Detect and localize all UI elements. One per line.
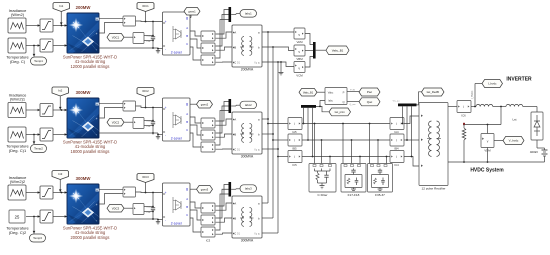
- svg-text:Vabc_B1: Vabc_B1: [332, 48, 344, 52]
- svg-text:Iac_RedB: Iac_RedB: [427, 90, 439, 94]
- svg-text:VDC3: VDC3: [112, 206, 120, 210]
- saturation block irradiance row3: [40, 186, 53, 199]
- current measurement IA4: [390, 118, 404, 135]
- signal source Temperature row2: [8, 127, 26, 142]
- filter block C Filter: [309, 164, 336, 198]
- annotation title 300MW row3: [76, 176, 92, 181]
- ground bus phase C: [279, 62, 284, 75]
- svg-text:VC_au: VC_au: [393, 101, 400, 103]
- DC source 400kV battery: [530, 148, 548, 162]
- annotation HVDC System: [470, 168, 504, 174]
- svg-text:gwm1: gwm1: [188, 9, 196, 13]
- goto tag In1: [53, 3, 70, 26]
- saturation block temperature row1: [40, 39, 53, 52]
- goto tag In2: [52, 87, 69, 110]
- outport tag Temp2: [31, 135, 47, 153]
- from tag Vabc_B1 input: [299, 89, 325, 97]
- current measurement block phase B row2: [201, 130, 215, 140]
- wire measurement outputs to mux and transformer row1: [216, 10, 232, 63]
- from tag VDC1: [107, 34, 133, 42]
- annotation SunPower caption row3: [63, 226, 117, 240]
- wire taps to C Filter: [315, 124, 331, 164]
- from tag gwm1: [184, 8, 200, 18]
- svg-text:(Deg. C): (Deg. C): [10, 59, 26, 64]
- wire irradiance to saturation row2: [26, 109, 40, 111]
- svg-text:Q_var: Q_var: [350, 103, 356, 106]
- current measurement IB4: [390, 134, 404, 151]
- wire irradiance to saturation row3: [26, 191, 40, 193]
- svg-text:In2: In2: [58, 89, 63, 93]
- two-level converter IGBT bridge row2: [163, 98, 191, 141]
- svg-text:IB5: IB5: [292, 147, 297, 151]
- wire mux stubs to phase wires: [303, 108, 314, 158]
- wire PV m output row1: [99, 17, 123, 19]
- signal source Irradiance row1: [8, 18, 26, 33]
- wire DC positive rail tap: [463, 107, 501, 126]
- svg-text:VCM: VCM: [296, 74, 303, 78]
- ground DC link row1: [156, 48, 160, 53]
- ground DC link row3: [156, 219, 160, 224]
- svg-text:Iabc1: Iabc1: [245, 11, 252, 15]
- svg-text:VBM: VBM: [296, 57, 303, 61]
- svg-text:VAM: VAM: [296, 40, 303, 44]
- current measurement block phase C row1: [201, 55, 215, 65]
- mux bus bar row2: [229, 99, 232, 113]
- mux bus bar row1: [229, 7, 232, 22]
- voltage measurement VCM: [294, 62, 305, 78]
- wire PV m output row3: [99, 188, 123, 190]
- current measurement IC5: [288, 151, 302, 168]
- svg-text:P: P: [343, 90, 345, 94]
- two-level converter IGBT bridge row1: [163, 12, 191, 55]
- two-level converter IGBT bridge row3: [163, 183, 191, 226]
- from tag VDC3: [107, 205, 133, 213]
- mux bus bar rectifier currents: [398, 104, 417, 107]
- wire temp saturation to PV array row1: [53, 44, 67, 46]
- outport tag Temp3: [30, 217, 46, 243]
- annotation Temperature label row3: [6, 226, 29, 236]
- svg-text:Qac: Qac: [367, 100, 373, 104]
- wire IC4 to rectifier port C: [404, 157, 419, 167]
- label Lst: [512, 117, 516, 121]
- wire Q output to Qac: [347, 102, 359, 107]
- annotation title 300MW row2: [76, 90, 92, 95]
- svg-text:300MW: 300MW: [76, 90, 92, 95]
- signal source Temperature row1: [8, 38, 26, 53]
- svg-text:gwm3: gwm3: [201, 187, 209, 191]
- voltage measurement VAM: [294, 28, 305, 44]
- svg-text:Iabc: Iabc: [328, 100, 333, 103]
- goto tag Qac: [359, 98, 380, 106]
- wire PV minus to converter bottom rail row1: [99, 47, 163, 49]
- current measurement block phase A row3: [201, 203, 215, 213]
- label IC3: [206, 239, 211, 243]
- svg-text:In3: In3: [58, 172, 63, 176]
- wire bus to IB5: [273, 139, 288, 141]
- wire DC return rail: [448, 161, 545, 163]
- wire temperature to saturation row2: [26, 133, 40, 135]
- svg-text:V_hvdc: V_hvdc: [509, 139, 519, 143]
- ground DC link row2: [156, 134, 160, 139]
- wire VDC measurement taps row2: [144, 120, 154, 127]
- wire measurement outputs to mux and transformer row2: [216, 102, 232, 150]
- svg-text:400kV: 400kV: [530, 150, 538, 154]
- wire taps to filter F35-37: [370, 124, 387, 164]
- wire VDC measurement taps row3: [144, 206, 154, 213]
- svg-text:(Deg. C)2: (Deg. C)2: [9, 230, 27, 235]
- svg-text:300MW: 300MW: [76, 176, 92, 181]
- goto tag IDC1: [137, 3, 154, 22]
- annotation title 200MW row1: [76, 5, 92, 10]
- svg-text:Iac_prim: Iac_prim: [335, 110, 346, 114]
- wire mux to Iac_RedB: [417, 92, 422, 105]
- wire P output to Pac: [347, 89, 359, 91]
- goto tag Iac_RedB: [422, 88, 445, 96]
- svg-text:gwm2: gwm2: [201, 102, 209, 106]
- wire rectifier DC+ to IC6: [448, 106, 457, 108]
- mux bus bar row3: [229, 182, 232, 197]
- wire PV plus output row1: [99, 23, 123, 34]
- from tag gwm2: [190, 101, 213, 109]
- svg-text:Iabc2: Iabc2: [245, 103, 252, 107]
- svg-text:Iabc3: Iabc3: [245, 187, 252, 191]
- measurement block DC current row2: [123, 101, 136, 111]
- goto tag IDC3: [137, 174, 154, 193]
- wire irradiance to saturation row1: [26, 24, 40, 26]
- svg-text:Temp3: Temp3: [33, 236, 42, 240]
- wire temp saturation to PV array row3: [53, 215, 67, 217]
- wire temperature to saturation row3: [26, 215, 40, 217]
- goto tag Vabc_B1: [316, 46, 349, 55]
- svg-text:Lst: Lst: [512, 117, 516, 121]
- voltage measurement VBM: [294, 45, 305, 61]
- goto tag Pac: [359, 88, 380, 96]
- wire DC top rail to converter row1: [136, 21, 163, 23]
- current measurement IA5: [288, 118, 302, 135]
- wire phase B horizontal run: [302, 139, 390, 141]
- svg-text:200MW: 200MW: [76, 5, 92, 10]
- svg-text:Vabc: Vabc: [328, 92, 334, 95]
- inverter valve block: [531, 112, 543, 140]
- annotation Temperature label row2: [6, 144, 29, 154]
- svg-text:IC5: IC5: [292, 163, 297, 167]
- measurement block DC voltage row1: [133, 33, 144, 44]
- wire temp saturation to PV array row2: [53, 133, 67, 135]
- svg-text:INVERTER: INVERTER: [506, 77, 532, 83]
- goto tag IDC2: [137, 88, 154, 108]
- svg-text:IB4: IB4: [394, 147, 399, 151]
- wire saturation to PV array row2: [53, 109, 67, 111]
- svg-text:Temp2: Temp2: [34, 147, 43, 151]
- annotation Temperature label row1: [6, 55, 29, 65]
- current measurement block phase A row2: [201, 118, 215, 128]
- wire mux stubs to rectifier phase wires: [393, 101, 413, 158]
- annotation SunPower caption row2: [63, 140, 117, 154]
- wire measurement outputs to mux and transformer row3: [216, 185, 232, 235]
- goto tag Iabc3: [231, 185, 256, 193]
- wire three-phase bus phase C vertical: [277, 61, 279, 233]
- svg-text:IC6: IC6: [461, 113, 466, 117]
- wire transformer1 outputs to bus: [262, 32, 294, 67]
- current measurement IC6: [457, 101, 471, 118]
- goto tag Iac_prim: [329, 108, 351, 116]
- svg-text:VDC1: VDC1: [112, 35, 120, 39]
- svg-text:12 pulse Rectifier: 12 pulse Rectifier: [422, 186, 446, 190]
- mux bus bar voltages B1: [313, 42, 316, 59]
- wire saturation to PV array row3: [53, 191, 67, 193]
- wire PV plus output row2: [99, 108, 123, 119]
- wire phase C horizontal run: [302, 156, 390, 158]
- label 300MVA row2: [241, 155, 254, 159]
- wire transformer3 outputs to bus: [262, 203, 278, 233]
- PV array block 300MW row2: [67, 98, 99, 138]
- wire saturation to PV array row1: [53, 24, 67, 26]
- annotation SunPower caption row1: [63, 55, 117, 69]
- voltage measurement VDM: [481, 125, 494, 163]
- saturation block irradiance row2: [40, 104, 53, 117]
- signal source Irradiance row2: [8, 103, 26, 118]
- current measurement IC4: [390, 151, 404, 168]
- wire inverter to DC source: [537, 140, 545, 148]
- wire three-phase bus phase A vertical: [267, 31, 269, 203]
- goto tag Iabc1: [231, 10, 256, 18]
- current measurement block phase A row1: [201, 31, 215, 41]
- wire voltage measurements to mux: [305, 34, 313, 68]
- wire three-phase bus phase B vertical: [272, 46, 274, 218]
- annotation Irradiance label row3: [9, 175, 28, 184]
- wire PV m output row2: [99, 102, 123, 104]
- svg-text:12000 parallel strings: 12000 parallel strings: [71, 64, 110, 69]
- signal source Irradiance row3: [8, 185, 26, 200]
- wire IB4 to rectifier port B: [404, 139, 419, 141]
- svg-text:(W/m2): (W/m2): [11, 12, 25, 17]
- label 200MVA row1: [241, 68, 254, 72]
- svg-text:IC4: IC4: [394, 163, 399, 167]
- wire IA4 to rectifier port A: [404, 116, 419, 124]
- goto tag Iabc2: [231, 101, 256, 109]
- capacitor DC link row3: [147, 193, 156, 220]
- svg-text:VDC2: VDC2: [112, 120, 120, 124]
- wire taps to filter F17-F18: [343, 124, 360, 164]
- svg-text:IC3: IC3: [206, 239, 211, 243]
- current measurement block phase C row2: [201, 142, 215, 152]
- current measurement IB5: [288, 134, 302, 151]
- from tag gwm3: [190, 186, 213, 194]
- svg-text:Temp1: Temp1: [34, 59, 43, 63]
- wire mux to Iabc input and Iac_prim: [316, 101, 329, 112]
- current measurement block phase B row3: [201, 215, 215, 225]
- wire phase A horizontal run: [302, 123, 390, 125]
- svg-text:IA5: IA5: [292, 130, 297, 134]
- svg-text:IDC2: IDC2: [142, 89, 149, 93]
- PV array block 200MW row1: [67, 13, 99, 53]
- svg-text:(W/m2)1: (W/m2)1: [10, 97, 26, 102]
- wire DC top rail to converter row3: [136, 192, 163, 194]
- three-phase transformer 300MVA row3: [232, 196, 262, 238]
- saturation block irradiance row1: [40, 19, 53, 32]
- wire PV minus to converter bottom rail row3: [99, 218, 163, 220]
- measurement block DC current row1: [123, 16, 136, 26]
- svg-text:200MVA: 200MVA: [241, 68, 254, 72]
- svg-text:20000 parallel strings: 20000 parallel strings: [71, 235, 110, 240]
- goto tag In3: [52, 171, 69, 193]
- wire transformer2 outputs to bus: [262, 119, 278, 149]
- svg-text:F35-37: F35-37: [375, 193, 385, 197]
- current measurement block phase C row3: [201, 227, 215, 237]
- svg-text:25: 25: [15, 214, 20, 219]
- svg-text:In1: In1: [59, 4, 64, 8]
- wire DC top rail to converter row2: [136, 106, 163, 108]
- mux bus bar primary currents: [301, 105, 316, 108]
- svg-text:IDC1: IDC1: [142, 4, 149, 8]
- wire PV plus output row3: [99, 194, 123, 205]
- svg-text:Pac: Pac: [367, 90, 373, 94]
- wire PV minus to converter bottom rail row2: [99, 132, 163, 134]
- annotation Irradiance label row1: [9, 8, 28, 17]
- annotation INVERTER: [506, 77, 532, 83]
- constant block 25 row3: [9, 210, 25, 223]
- from tag VDC2: [107, 119, 133, 127]
- wire converter phase outputs row3: [190, 202, 201, 232]
- resistor HVDC divider: [462, 123, 466, 162]
- svg-text:I_hvdc: I_hvdc: [488, 82, 497, 86]
- svg-text:Vabc_B1: Vabc_B1: [303, 90, 314, 94]
- label 300MVA row3: [241, 239, 254, 243]
- svg-text:F17-F18: F17-F18: [348, 193, 360, 197]
- power measurement block PQ: [325, 88, 347, 105]
- measurement block DC current row3: [123, 187, 136, 197]
- capacitor DC link row2: [147, 108, 156, 135]
- measurement block DC voltage row2: [133, 118, 144, 129]
- svg-text:300MVA: 300MVA: [241, 239, 254, 243]
- svg-text:HVDC System: HVDC System: [470, 168, 504, 174]
- measurement block DC voltage row3: [133, 204, 144, 215]
- svg-text:C Filter: C Filter: [318, 193, 328, 197]
- svg-text:I_HVDC: I_HVDC: [472, 90, 474, 99]
- wire bus to IC5: [278, 156, 288, 158]
- svg-text:Q: Q: [342, 100, 344, 104]
- goto tag V_hvdc: [494, 137, 524, 145]
- svg-text:IDC3: IDC3: [142, 175, 149, 179]
- outport tag Temp1: [31, 46, 47, 66]
- filter block F17-F18: [341, 164, 366, 198]
- svg-text:IA4: IA4: [394, 130, 399, 134]
- current measurement block phase B row1: [201, 43, 215, 53]
- wire temperature to saturation row1: [26, 44, 40, 46]
- svg-text:18000 parallel strings: 18000 parallel strings: [71, 149, 110, 154]
- PV array block 300MW row3: [67, 184, 99, 224]
- wire IC6 to inverter with smoothing reactors: [471, 104, 537, 112]
- capacitor DC link row1: [147, 22, 156, 49]
- filter block F35-37: [368, 164, 393, 198]
- wire converter phase outputs row2: [190, 117, 201, 147]
- svg-text:(Deg. C)1: (Deg. C)1: [9, 148, 27, 153]
- saturation block temperature row3: [40, 210, 53, 223]
- svg-text:(W/m2)2: (W/m2)2: [10, 179, 26, 184]
- wire VDC measurement taps row1: [144, 35, 154, 42]
- saturation block temperature row2: [40, 128, 53, 141]
- annotation Irradiance label row2: [9, 92, 28, 101]
- svg-text:300MVA: 300MVA: [241, 155, 254, 159]
- rectifier block 12 pulse Rectifier: [419, 103, 448, 191]
- three-phase transformer 200MVA row1: [232, 25, 262, 67]
- goto tag I_hvdc: [472, 80, 503, 107]
- wire bus to IA5: [268, 123, 288, 125]
- three-phase transformer 300MVA row2: [232, 112, 262, 154]
- wire converter phase outputs row1: [190, 31, 201, 60]
